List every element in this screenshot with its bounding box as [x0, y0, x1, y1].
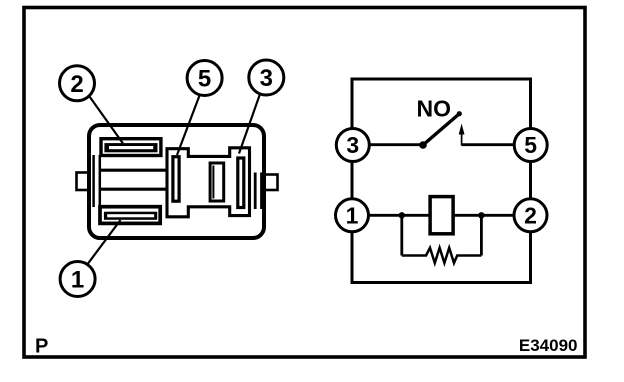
svg-text:1: 1 [346, 203, 359, 229]
svg-text:3: 3 [260, 65, 273, 92]
svg-text:1: 1 [71, 267, 84, 294]
svg-text:2: 2 [70, 71, 83, 98]
svg-text:E34090: E34090 [519, 336, 578, 355]
svg-text:3: 3 [346, 132, 359, 158]
svg-text:5: 5 [198, 66, 211, 93]
svg-text:5: 5 [524, 132, 537, 158]
svg-text:P: P [35, 336, 48, 358]
svg-text:NO: NO [417, 96, 452, 122]
svg-text:2: 2 [524, 203, 537, 229]
